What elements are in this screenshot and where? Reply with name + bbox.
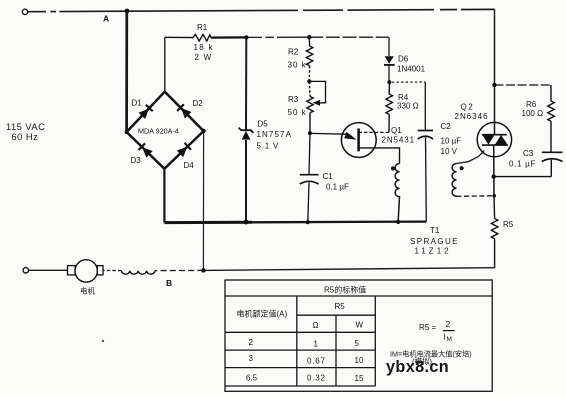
capacitor C1 0.1uF (300, 133, 319, 222)
svg-text:B: B (166, 278, 172, 288)
diode D3 (138, 143, 152, 157)
svg-text:T1: T1 (430, 226, 440, 235)
terminal: AC input top-left (22, 9, 27, 14)
junction dot bridge right vertex (201, 129, 205, 133)
svg-text:D4: D4 (184, 161, 195, 170)
svg-text:R5: R5 (335, 302, 346, 311)
transformer T1 secondary coil (452, 164, 456, 197)
junction dot triac MT1 / snubber bottom (492, 174, 496, 178)
resistor R2 30k (306, 37, 312, 81)
svg-text:10 µF: 10 µF (441, 136, 462, 145)
diode D2 (177, 104, 191, 118)
wire: R1 output rail to R2 and D6 (246, 37, 389, 56)
svg-text:60 Hz: 60 Hz (12, 132, 39, 142)
svg-text:A: A (103, 14, 109, 24)
wire: snubber top (494, 84, 551, 86)
svg-text:1N757A: 1N757A (257, 130, 293, 139)
svg-text:(模拟): (模拟) (412, 356, 432, 366)
junction dot motor line / bridge (201, 268, 205, 272)
wire: secondary bottom to R5 branch (457, 195, 495, 198)
unijunction transistor Q1 2N5431 (341, 123, 376, 158)
junction dot D5 top (244, 35, 248, 39)
zener diode D5 1N757A branch (245, 37, 247, 130)
svg-text:30 k: 30 k (288, 61, 307, 70)
svg-text:3: 3 (249, 354, 254, 363)
svg-text:2 W: 2 W (195, 53, 213, 62)
svg-text:Q2: Q2 (461, 103, 475, 112)
svg-text:2: 2 (446, 319, 451, 329)
svg-text:电机: 电机 (80, 286, 95, 296)
svg-text:2N5431: 2N5431 (382, 136, 415, 145)
ground rail (164, 221, 252, 224)
svg-text:18 k: 18 k (194, 43, 214, 52)
svg-text:0.1 µF: 0.1 µF (326, 183, 349, 192)
junction dot R2/R3 (307, 79, 311, 83)
terminal: AC input bottom-left (23, 268, 28, 273)
svg-text:5: 5 (355, 339, 360, 348)
svg-text:电机额定值(A): 电机额定值(A) (237, 309, 288, 319)
svg-text:C1: C1 (323, 172, 334, 181)
svg-text:0.1 µF: 0.1 µF (509, 160, 536, 169)
resistor R1 18k 2W (165, 34, 247, 41)
wire: bottom AC line (203, 268, 494, 271)
Q1 base2 wire to R4 (359, 131, 389, 133)
bridge rectifier MDA 920A-4 (127, 92, 204, 169)
svg-text:R1: R1 (197, 23, 208, 32)
svg-text:R6: R6 (526, 100, 537, 109)
wire: triac branch vertical drop (494, 9, 496, 122)
svg-text:1: 1 (314, 340, 319, 349)
transformer T1 primary coil (395, 164, 399, 221)
junction dot R3 bottom / emitter node (308, 131, 312, 135)
scan gaps (white overlays) (46, 9, 461, 40)
wire: bridge right vertex down to motor line (202, 131, 204, 271)
wire: motor to inductor (103, 269, 122, 271)
svg-text:6.5: 6.5 (246, 374, 258, 383)
capacitor C3 0.1uF (494, 152, 563, 176)
svg-text:10 V: 10 V (441, 147, 458, 156)
svg-text:0.32: 0.32 (307, 374, 326, 383)
svg-text:R5的标称值: R5的标称值 (324, 285, 366, 295)
resistor R3 50k (307, 81, 313, 133)
junction dot triac top / snubber tee (492, 83, 496, 87)
diode D6 1N4001 (385, 56, 394, 63)
triac Q2 2N6346 (477, 122, 511, 156)
wire: bridge top vertex riser to R1 (164, 37, 166, 91)
Q1 emitter wire and arrow (310, 132, 347, 135)
diode D4 (177, 143, 191, 157)
svg-text:10: 10 (355, 356, 364, 365)
svg-text:D1: D1 (132, 98, 143, 107)
svg-text:5.1 V: 5.1 V (257, 142, 280, 151)
resistor R4 330 ohm (386, 82, 392, 132)
svg-text:15: 15 (355, 374, 364, 383)
zener D5 symbol (242, 131, 251, 140)
svg-text:D5: D5 (258, 120, 269, 129)
diode D1 (138, 105, 152, 119)
svg-text:D2: D2 (193, 99, 204, 108)
svg-text:1N4001: 1N4001 (397, 65, 426, 74)
svg-text:D3: D3 (131, 156, 142, 165)
svg-text:50 k: 50 k (288, 108, 307, 117)
secondary phasing dot (460, 166, 464, 170)
junction dot R2 top (307, 35, 311, 39)
table: R5 selection (225, 280, 492, 391)
resistor R5 (491, 196, 497, 268)
svg-text:M: M (447, 336, 452, 343)
wire: left vertical from node A to bridge left vertex (125, 11, 128, 132)
stray mark (102, 340, 104, 342)
wire: bridge bottom vertex to ground rail (163, 169, 165, 223)
inductor B (121, 271, 155, 275)
Q1 base1 wire to transformer (359, 148, 400, 164)
svg-text:C2: C2 (441, 122, 452, 131)
junction dot D6/R4/C2 (387, 80, 391, 84)
svg-text:Q1: Q1 (391, 126, 402, 135)
svg-text:R2: R2 (288, 48, 299, 57)
svg-text:MDA 920A-4: MDA 920A-4 (138, 127, 179, 136)
svg-text:Ω: Ω (313, 321, 319, 330)
svg-text:D6: D6 (398, 55, 409, 64)
primary phasing dot (391, 166, 395, 170)
svg-text:0.67: 0.67 (307, 357, 326, 366)
wire: top rail from input terminal to triac branch (28, 9, 495, 122)
junction dot C1 bottom on rail (306, 220, 310, 224)
svg-text:R3: R3 (288, 95, 299, 104)
svg-text:C3: C3 (523, 149, 534, 158)
junction A dot (125, 9, 130, 14)
svg-text:W: W (356, 321, 364, 330)
svg-text:SPRAGUE: SPRAGUE (410, 237, 459, 246)
wire: terminal to motor (29, 269, 68, 271)
svg-text:11Z12: 11Z12 (415, 247, 452, 256)
svg-text:R5: R5 (503, 220, 514, 229)
resistor R6 100 ohm (548, 85, 554, 152)
junction bridge left vertex (125, 130, 129, 134)
svg-text:2: 2 (249, 338, 254, 347)
capacitor C2 10uF 10V (392, 82, 433, 222)
junction dot primary bottom on rail (396, 220, 400, 224)
svg-text:115 VAC: 115 VAC (6, 122, 45, 132)
svg-text:R5 =: R5 = (419, 323, 436, 332)
motor (电机) (68, 266, 76, 275)
svg-text:2N6346: 2N6346 (455, 112, 489, 121)
Q2 gate wire to secondary (457, 151, 485, 164)
junction dot D5 bottom on rail (244, 220, 249, 225)
potentiometer R3 50k wiper link (309, 81, 325, 102)
svg-text:330 Ω: 330 Ω (397, 102, 419, 111)
svg-text:100 Ω: 100 Ω (522, 109, 544, 118)
